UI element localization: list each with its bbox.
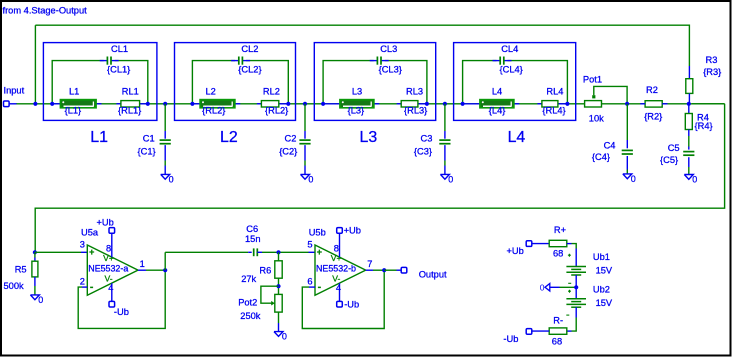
junction: loop right L4 (565, 102, 569, 106)
junction: R2/R3/R4 node (687, 102, 691, 106)
svg-text:{RL4}: {RL4} (542, 106, 565, 116)
svg-text:15n: 15n (245, 234, 261, 244)
ground C2 (301, 174, 314, 184)
svg-text:+Ub: +Ub (97, 218, 114, 228)
svg-text:0: 0 (540, 283, 545, 293)
module box L2 (175, 43, 296, 121)
svg-text:{C1}: {C1} (138, 146, 156, 156)
ground C3 (440, 174, 453, 184)
wire: to U5a + input (35, 251, 81, 253)
inductor L4 (480, 100, 514, 108)
svg-text:Pot2: Pot2 (238, 298, 257, 308)
svg-text:2: 2 (80, 277, 85, 287)
ground C5 (684, 175, 697, 185)
svg-text:C3: C3 (421, 133, 433, 143)
junction: C3 node (443, 102, 447, 106)
svg-text:CL3: CL3 (380, 44, 397, 54)
lead stubs L2 (192, 103, 200, 105)
svg-text:{C5}: {C5} (660, 155, 678, 165)
inductor L1 (61, 100, 97, 108)
resistor RL4 (542, 101, 558, 107)
svg-text:U5a: U5a (81, 228, 99, 238)
svg-text:R3: R3 (706, 55, 718, 65)
svg-text:NE5532-a: NE5532-a (88, 264, 128, 274)
wire: U5b output (366, 269, 373, 271)
svg-text:{L3}: {L3} (348, 106, 365, 116)
svg-text:C1: C1 (143, 133, 155, 143)
wire: U5a output up to C6 line (164, 252, 166, 270)
svg-text:{R2}: {R2} (644, 111, 662, 121)
terminal: -Ub supply (532, 330, 549, 332)
resistor RL3 (401, 101, 418, 107)
svg-text:{CL1}: {CL1} (107, 64, 130, 74)
ground C4 (623, 174, 636, 184)
capacitor C2 (299, 140, 310, 144)
wire: down to C1 (164, 104, 166, 131)
ground C1 (161, 174, 174, 184)
junction: loop left L4 (461, 102, 465, 106)
svg-text:{C2}: {C2} (279, 146, 297, 156)
svg-text:27k: 27k (241, 274, 256, 284)
svg-text:-Ub: -Ub (503, 334, 518, 344)
capacitor C5 (683, 152, 694, 156)
svg-text:-Ub: -Ub (344, 300, 359, 310)
svg-text:Output: Output (419, 269, 447, 279)
svg-text:4: 4 (108, 283, 113, 293)
svg-text:7: 7 (367, 259, 372, 269)
svg-text:68: 68 (553, 249, 563, 259)
module box L3 (314, 43, 435, 121)
wire: C1 to ground (164, 145, 166, 160)
svg-text:{RL1}: {RL1} (118, 106, 141, 116)
svg-text:RL2: RL2 (263, 86, 280, 96)
wire: U5a output (138, 269, 146, 271)
op-amp U5a (87, 245, 138, 295)
wire: R+ to battery (567, 243, 572, 245)
terminal: +Ub supply (526, 241, 532, 247)
wire: CL4 loop (463, 61, 497, 104)
junction: C1 node (163, 102, 167, 106)
svg-text:0: 0 (448, 174, 453, 184)
svg-text:V-: V- (332, 274, 340, 284)
wire: down to C4 (626, 104, 628, 140)
svg-text:15V: 15V (596, 265, 613, 275)
wire: C6 to U5b + input (262, 251, 309, 253)
svg-text:0: 0 (282, 332, 287, 342)
battery polarity + (568, 254, 571, 257)
svg-text:+Ub: +Ub (344, 225, 361, 235)
svg-text:15V: 15V (596, 298, 613, 308)
wire: C2 to ground (304, 145, 306, 160)
resistor R2 (645, 101, 662, 107)
wire: R6 to Pot2 (278, 278, 280, 294)
svg-text:{CL4}: {CL4} (500, 64, 523, 74)
battery polarity + (Ub2) (568, 290, 571, 293)
svg-text:8: 8 (106, 244, 111, 254)
svg-text:CL1: CL1 (111, 44, 128, 54)
resistor R+ (532, 243, 549, 245)
junction: loop right L1 (146, 102, 150, 106)
svg-text:4: 4 (336, 283, 341, 293)
terminal +Ub U5a (109, 228, 115, 234)
resistor RL1 (121, 101, 140, 107)
wire: down to C2 (304, 104, 306, 131)
lead stubs L3 (323, 103, 340, 105)
junction: input node (33, 102, 37, 106)
capacitor CL1 (107, 57, 111, 65)
wire: Pot1 wiper (594, 86, 627, 103)
svg-text:U5b: U5b (309, 228, 326, 238)
svg-text:{RL2}: {RL2} (202, 106, 225, 116)
ground R5 (30, 295, 43, 305)
svg-text:{L4}: {L4} (489, 106, 506, 116)
capacitor C1 (160, 140, 171, 144)
wire: Pot2 wiper (261, 286, 279, 303)
wire: C4 to ground (626, 156, 628, 170)
svg-text:{C4}: {C4} (592, 152, 610, 162)
battery Ub1 (566, 267, 586, 276)
svg-text:Pot1: Pot1 (583, 75, 602, 85)
module box L1 (43, 43, 156, 121)
terminal: 0 reference (540, 283, 550, 293)
wire: top rail to R3 (35, 25, 689, 66)
wire: C5 to ground (688, 157, 690, 167)
svg-text:5: 5 (307, 240, 312, 250)
svg-text:L3: L3 (352, 86, 362, 96)
capacitor C6 (248, 251, 252, 253)
svg-text:R6: R6 (259, 265, 271, 275)
inductor L2 (200, 100, 235, 108)
svg-text:-: - (90, 281, 94, 293)
svg-text:CL4: CL4 (501, 44, 518, 54)
capacitor CL4 (500, 57, 504, 65)
svg-text:8: 8 (334, 244, 339, 254)
svg-text:{RL3}: {RL3} (404, 106, 427, 116)
wire: CL1 loop (52, 61, 103, 104)
capacitor CL3 (377, 57, 381, 65)
potentiometer Pot2 (275, 294, 282, 312)
wire: battery to R- (575, 307, 577, 317)
resistor R- (567, 330, 572, 332)
capacitor CL2 (239, 57, 243, 65)
svg-text:C2: C2 (285, 133, 297, 143)
wire: battery mid node (575, 275, 577, 299)
svg-text:R2: R2 (646, 85, 658, 95)
resistor R3 (688, 66, 690, 79)
svg-text:1: 1 (140, 259, 145, 269)
svg-text:-: - (318, 281, 322, 293)
junction: battery mid (574, 285, 578, 289)
svg-text:{R4}: {R4} (695, 121, 713, 131)
svg-text:Input: Input (4, 86, 25, 96)
wire: C3 to ground (444, 145, 446, 160)
wire: U5a feedback (82, 286, 87, 288)
ground Pot2 (274, 332, 287, 342)
svg-text:0: 0 (38, 295, 43, 305)
power pins U5b (339, 233, 341, 257)
junction: U5a input node (33, 250, 37, 254)
svg-text:L1: L1 (90, 129, 108, 146)
capacitor C4 (622, 150, 633, 154)
svg-text:C5: C5 (668, 143, 680, 153)
svg-text:RL1: RL1 (122, 86, 139, 96)
wire: R4 to C5 (688, 130, 690, 137)
wire: CL2 loop (192, 61, 235, 104)
junction: Pot1 output node (625, 102, 629, 106)
wire: Pot2 to ground (278, 312, 280, 323)
svg-text:{CL3}: {CL3} (379, 64, 402, 74)
junction: U5a output node (163, 268, 167, 272)
battery Ub2 (566, 299, 586, 307)
svg-text:+: + (317, 247, 322, 257)
svg-text:{R3}: {R3} (703, 67, 721, 77)
svg-text:C4: C4 (604, 141, 616, 151)
resistor RL2 (261, 101, 278, 107)
terminal -Ub U5a (109, 301, 115, 307)
junction: U5b output node (382, 268, 386, 272)
svg-text:0: 0 (308, 174, 313, 184)
lead stubs L1 (52, 103, 60, 105)
junction: loop right L3 (425, 102, 429, 106)
svg-text:0: 0 (631, 174, 636, 184)
wire: R5 to ground (34, 277, 36, 286)
svg-text:500k: 500k (4, 281, 25, 291)
svg-text:L3: L3 (360, 129, 378, 146)
op-amp U5b (315, 245, 366, 295)
junction: R6/Pot2 node (276, 284, 280, 288)
svg-text:10k: 10k (589, 114, 604, 124)
svg-text:NE5532-b: NE5532-b (316, 264, 356, 274)
terminal: Output (401, 267, 407, 273)
svg-text:L1: L1 (69, 86, 79, 96)
svg-text:L4: L4 (508, 129, 526, 146)
junction: C2 node (303, 102, 307, 106)
svg-text:0: 0 (169, 174, 174, 184)
svg-text:Ub1: Ub1 (593, 252, 610, 262)
svg-text:L2: L2 (220, 129, 238, 146)
svg-text:3: 3 (80, 240, 85, 250)
svg-text:R-: R- (553, 315, 563, 325)
wire: CL3 loop (323, 61, 374, 104)
svg-text:{CL2}: {CL2} (238, 64, 261, 74)
battery polarity - (Ub2) (566, 314, 569, 316)
svg-text:RL4: RL4 (546, 86, 563, 96)
svg-text:{RL2}: {RL2} (265, 106, 288, 116)
svg-text:R5: R5 (15, 265, 27, 275)
svg-text:{C3}: {C3} (414, 146, 432, 156)
svg-text:L4: L4 (492, 86, 502, 96)
terminal +Ub U5b (337, 228, 343, 234)
wire: input node up to top rail (34, 25, 36, 104)
svg-text:Ub2: Ub2 (593, 285, 610, 295)
wire: main horizontal rail (17, 103, 725, 105)
lead stubs L4 (463, 103, 480, 105)
junction: loop left L3 (321, 102, 325, 106)
svg-text:from 4.Stage-Output: from 4.Stage-Output (3, 5, 88, 15)
junction: R6 top node (276, 250, 280, 254)
svg-text:+: + (89, 247, 94, 257)
svg-text:RL3: RL3 (406, 86, 423, 96)
svg-text:R+: R+ (554, 225, 566, 235)
svg-text:+Ub: +Ub (507, 246, 524, 256)
power pins U5a (111, 233, 113, 257)
svg-text:-Ub: -Ub (114, 307, 129, 317)
svg-text:68: 68 (552, 336, 562, 346)
wire: down to C3 (444, 104, 446, 131)
svg-text:V-: V- (105, 274, 113, 284)
junction: loop left L2 (190, 102, 194, 106)
svg-text:L2: L2 (206, 86, 216, 96)
potentiometer Pot1 (585, 101, 602, 107)
module box L4 (454, 43, 576, 121)
junction: loop left L1 (50, 102, 54, 106)
wire: filter output to lower stage (692, 103, 725, 105)
junction: loop right L2 (286, 102, 290, 106)
svg-text:{L1}: {L1} (65, 106, 82, 116)
capacitor C3 (439, 140, 450, 144)
resistor R5 (34, 252, 36, 257)
battery polarity - (568, 282, 571, 284)
svg-text:C6: C6 (246, 224, 258, 234)
resistor R6 (278, 252, 280, 260)
terminal -Ub U5b (337, 301, 343, 307)
wire: U5b feedback (309, 286, 315, 288)
svg-text:250k: 250k (240, 311, 261, 321)
inductor L3 (340, 100, 374, 108)
svg-text:0: 0 (692, 175, 697, 185)
resistor R4 (688, 104, 690, 114)
svg-text:6: 6 (307, 277, 312, 287)
svg-text:CL2: CL2 (241, 44, 258, 54)
